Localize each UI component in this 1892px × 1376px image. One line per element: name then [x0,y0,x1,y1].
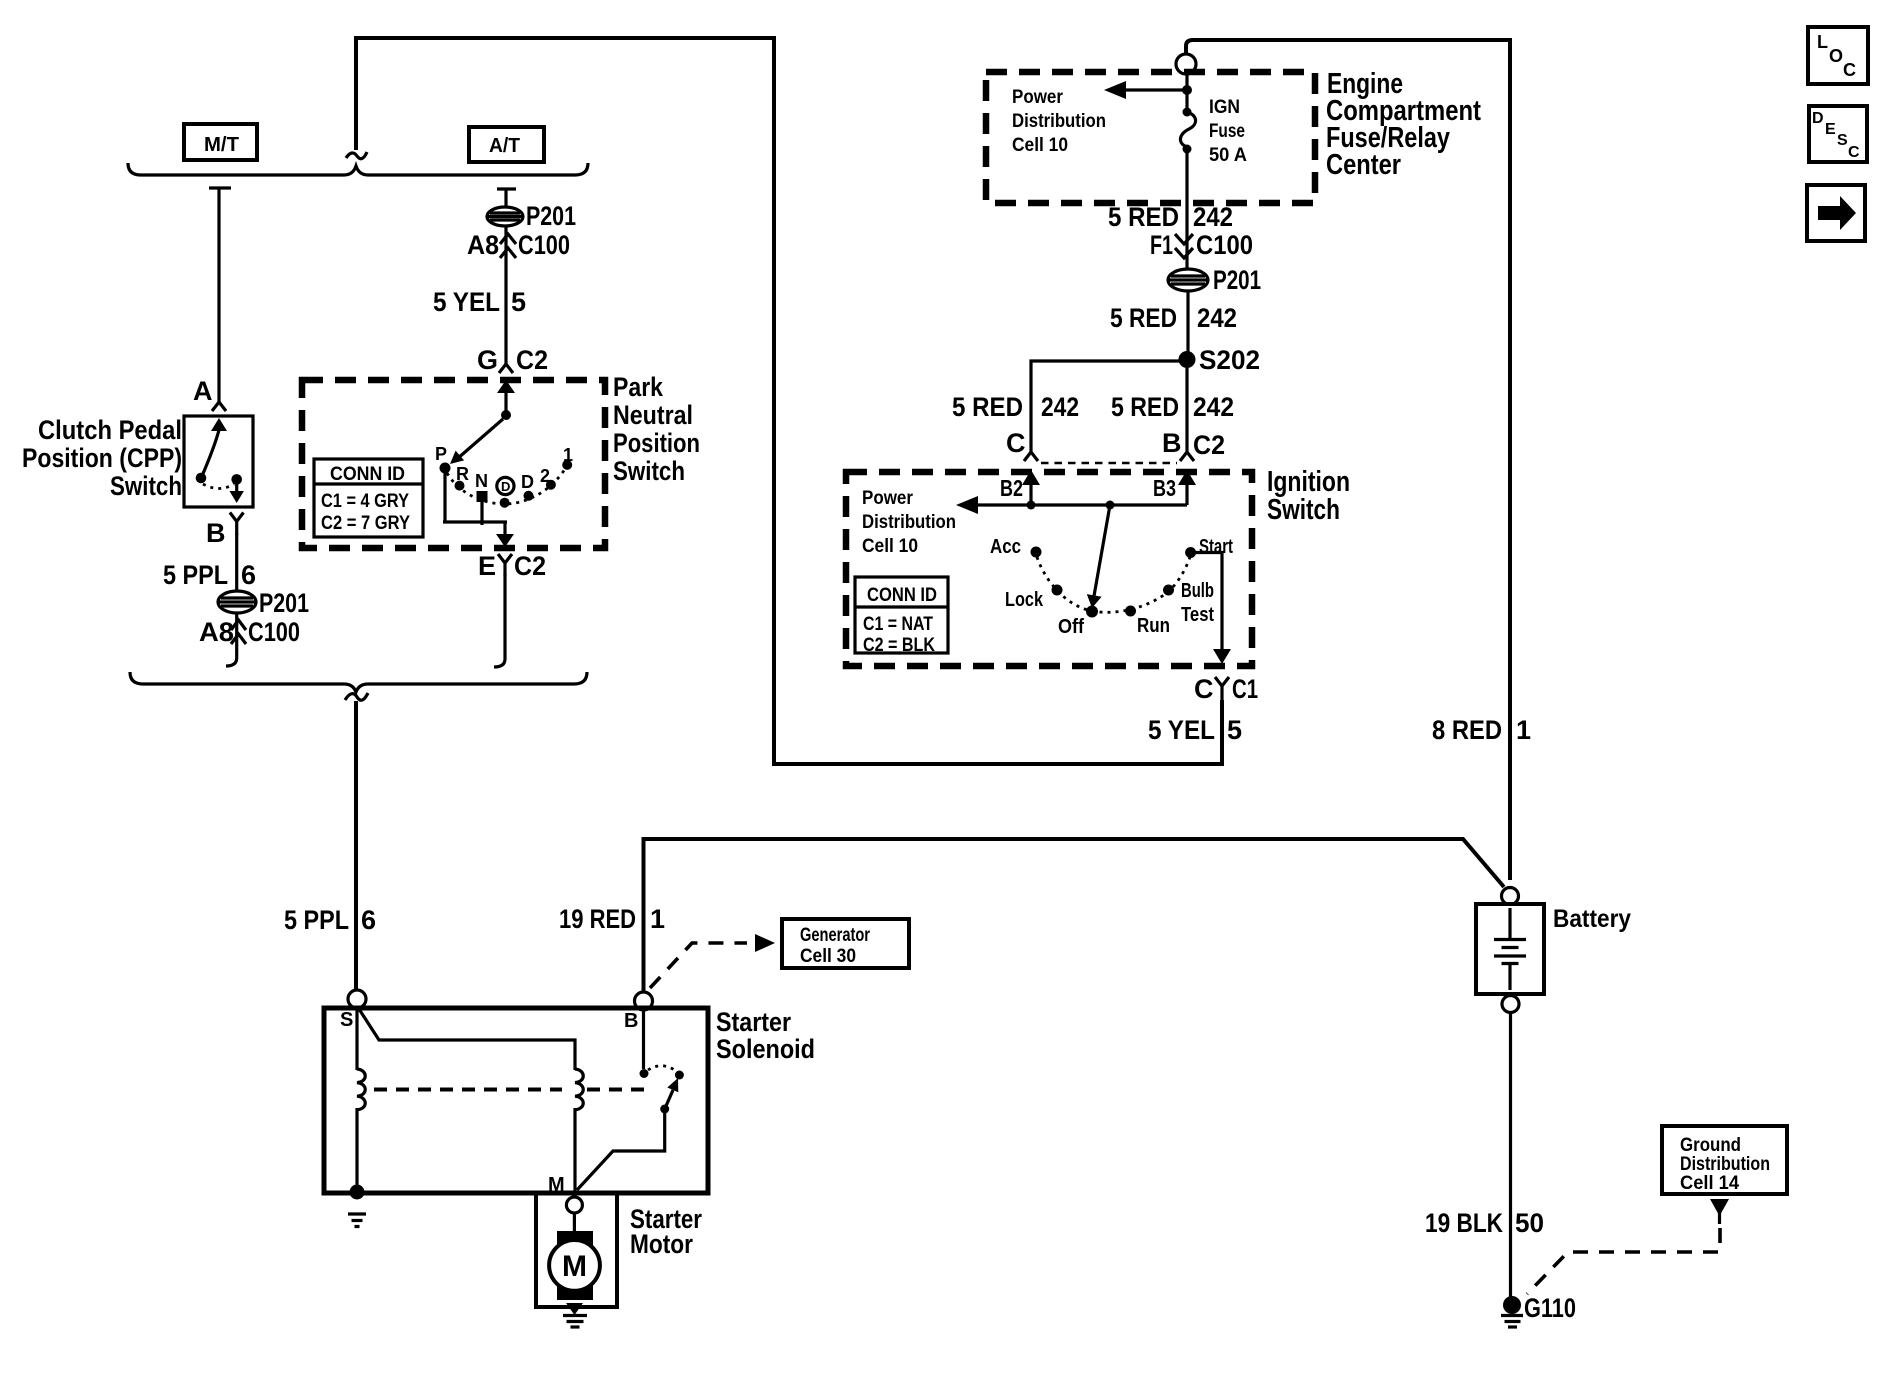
svg-text:Cell 14: Cell 14 [1680,1173,1739,1194]
svg-text:8 RED: 8 RED [1432,715,1502,745]
svg-text:Switch: Switch [613,456,685,486]
svg-text:5 YEL: 5 YEL [433,287,500,317]
svg-text:50 A: 50 A [1209,145,1247,166]
contact blade fixed [675,1071,684,1080]
ignition wiper arrow [1087,505,1110,608]
svg-text:Acc: Acc [990,536,1021,558]
wire: 19 RED solenoid B to battery [644,839,1505,992]
wire fuse to F1 connector [1185,153,1188,270]
svg-text:Switch: Switch [110,471,182,501]
svg-text:242: 242 [1193,202,1233,232]
arrow start output exits box [1213,649,1231,664]
svg-text:Motor: Motor [630,1229,693,1259]
svg-text:C1 = NAT: C1 = NAT [863,614,933,635]
box: engine compartment fuse/relay center (dashed) [986,72,1315,203]
svg-text:5 YEL: 5 YEL [1148,715,1215,745]
svg-text:G110: G110 [1524,1293,1576,1323]
PNP wiper blade to P [450,419,503,464]
contact D [521,472,534,501]
svg-text:1: 1 [1516,715,1531,745]
svg-text:S: S [1837,132,1848,149]
ground symbol (motor) [563,1303,587,1327]
wire S to hold-in coil [355,1008,358,1070]
wire B to P201 [235,533,238,592]
svg-text:Start: Start [1199,536,1233,558]
contact R [455,464,470,491]
svg-text:Position (CPP): Position (CPP) [22,443,182,473]
arrow to power distribution [1104,81,1187,99]
svg-text:S202: S202 [1199,345,1260,375]
svg-text:CONN ID: CONN ID [867,585,937,606]
svg-text:D: D [501,479,510,494]
contact Acc [990,536,1042,558]
node: battery positive [1502,888,1519,905]
wire P201 to S202 [1186,291,1189,355]
svg-text:C100: C100 [1196,230,1253,260]
wire C100 to lower brace (hook) [226,613,237,666]
svg-text:C1: C1 [1232,674,1258,704]
svg-text:242: 242 [1197,303,1237,333]
label starter motor [630,1204,702,1259]
CPP dashed arc [203,484,234,489]
svg-text:Distribution: Distribution [1012,111,1106,132]
brace top (M/T A/T options) [128,163,588,175]
svg-text:E: E [478,551,496,581]
label 8 RED 1 [1432,715,1531,745]
box: park neutral position switch (dashed) [302,380,605,548]
connector P201 grommet (A/T branch) [487,201,576,231]
contact B fixed [640,1069,649,1078]
node junction wiper on feed [1106,501,1115,510]
node: solenoid M terminal [566,1197,582,1213]
dashed connector link C2 [1041,462,1177,464]
svg-text:Neutral: Neutral [613,400,693,430]
wire coil to ground node [355,1108,358,1190]
label 5 PPL 6 (CPP branch) [163,560,256,590]
connector P201 grommet (right) [1168,265,1261,295]
svg-text:N: N [475,471,488,491]
button DESC [1809,106,1867,162]
ignition feed arrow to power distribution [956,496,1187,514]
svg-text:Power: Power [862,488,914,509]
arrow from ground distribution [1710,1199,1729,1224]
svg-text:Clutch Pedal: Clutch Pedal [38,415,182,445]
svg-text:C1 = 4 GRY: C1 = 4 GRY [321,491,409,512]
PNP P to output bus [443,473,446,522]
svg-text:Distribution: Distribution [1680,1154,1770,1175]
svg-text:B: B [1162,428,1182,458]
PNP entry arrow G [497,380,515,412]
node: solenoid B terminal [635,992,653,1010]
svg-text:50: 50 [1515,1208,1544,1238]
wire S202 branch to ignition C pin [1031,361,1187,452]
svg-text:G: G [477,345,498,375]
connector legs G pin C2 at PNP [477,345,548,375]
label engine compartment fuse/relay center [1326,68,1481,181]
label 5 RED 242 (above S202) [1110,303,1237,333]
connector F1 C100 (double chevron down) [1150,230,1253,260]
svg-text:S: S [340,1009,353,1031]
svg-text:C2 = BLK: C2 = BLK [863,635,935,656]
svg-text:Position: Position [613,428,700,458]
ground symbol (solenoid) [348,1214,366,1227]
wire: battery feed to fuse center [1186,40,1510,880]
label 5 RED 242 (right branch) [1111,392,1234,422]
brace bottom (options rejoin) [130,672,587,692]
box: battery [1476,904,1544,994]
fuse IGN 50A [1180,108,1195,154]
svg-text:C: C [1194,674,1214,704]
wire battery to G110 [1509,1012,1512,1297]
svg-text:O: O [1829,46,1843,66]
svg-text:L: L [1817,32,1828,52]
svg-text:P201: P201 [1213,265,1261,295]
ignition rotary contacts arc [1037,557,1190,612]
box: ignition switch (dashed) [846,472,1252,666]
svg-text:Fuse: Fuse [1209,121,1245,142]
svg-text:R: R [456,464,469,484]
connector E C2 below PNP [478,551,546,581]
wire interrupt squiggle bottom [345,693,368,700]
svg-text:1: 1 [563,445,573,465]
svg-text:E: E [1825,121,1836,138]
PNP output exits box [496,522,514,547]
svg-text:P201: P201 [526,201,576,231]
wire S to pull-in coil branch [359,1009,575,1070]
wire blade to M [577,1113,665,1190]
solenoid switch blade [665,1078,679,1109]
svg-text:5 RED: 5 RED [1108,202,1179,232]
svg-text:P201: P201 [259,588,309,618]
connector legs A at CPP [212,402,226,411]
label power distribution cell 10 (ignition box) [862,488,956,557]
label 5 YEL 5 (ignition output) [1148,715,1242,745]
svg-text:C: C [1843,60,1856,80]
svg-text:5 RED: 5 RED [1110,303,1177,333]
svg-text:Cell 10: Cell 10 [1012,135,1068,156]
PNP N to output bus (thick) [480,499,483,525]
label power distribution cell 10 (engine box) [1012,87,1106,156]
node splice S202 [1179,345,1261,375]
svg-text:F1: F1 [1150,230,1173,260]
connector C C1 below ignition [1194,674,1258,704]
svg-text:Battery: Battery [1553,905,1631,933]
svg-text:5: 5 [1227,715,1242,745]
svg-text:B2: B2 [1000,475,1023,501]
svg-text:5 PPL: 5 PPL [284,905,349,935]
label 5 RED 242 (left branch) [952,392,1079,422]
label 19 BLK 50 [1425,1208,1544,1238]
svg-text:Distribution: Distribution [862,512,956,533]
node: solenoid S terminal [348,990,366,1008]
svg-text:Switch: Switch [1267,494,1340,526]
dashed reference to generator [650,934,775,988]
CPP blade arrow [202,418,227,476]
conn id box (PNP) [314,459,423,537]
svg-text:Park: Park [613,372,664,402]
connector P201 grommet (CPP branch) [218,588,309,618]
connector A8 C100 (CPP branch, double chevron up) [199,617,300,647]
wire B to contact [642,1010,645,1069]
blade pivot [660,1105,669,1114]
ground symbol (G110) [1501,1316,1523,1328]
svg-text:A: A [193,376,213,406]
wire S202 down to ignition B pin [1185,368,1188,452]
svg-text:6: 6 [361,905,376,935]
pin B3 arrow [1153,470,1196,505]
contact Start [1185,536,1233,558]
svg-text:19 RED: 19 RED [559,904,636,934]
label ignition switch [1267,466,1350,526]
node: ground G110 [1503,1293,1576,1323]
pin B2 arrow [1000,470,1040,505]
mechanical link dashes [374,1088,562,1092]
contact Off [1058,606,1098,639]
svg-text:C2: C2 [514,551,546,581]
wire: start-signal loop (C1 to M/T-A/T brace) [356,38,1222,764]
PNP wiper pivot node [501,410,511,420]
box: ground distribution cell 14 [1662,1126,1787,1194]
wire A/T branch to PNP switch [504,226,507,364]
connector B below CPP [206,513,244,549]
node: fuse center input circle [1176,54,1196,74]
svg-text:242: 242 [1193,392,1234,422]
svg-text:D: D [1812,110,1824,127]
svg-text:M/T: M/T [204,134,239,156]
connector legs C pin at ignition [1006,428,1038,461]
svg-text:B: B [624,1010,638,1032]
svg-text:1: 1 [650,904,665,934]
node junction B2 on feed [1027,501,1036,510]
svg-text:C: C [1848,144,1860,161]
svg-text:P: P [435,444,447,464]
contact 1 [562,445,573,470]
svg-text:C2: C2 [516,345,548,375]
button LOC [1808,27,1868,84]
svg-text:Run: Run [1137,615,1170,637]
svg-text:19 BLK: 19 BLK [1425,1208,1503,1238]
svg-text:C100: C100 [248,617,300,647]
svg-text:A8: A8 [199,617,234,647]
CPP pivot contact [196,473,207,484]
svg-text:Ground: Ground [1680,1135,1741,1156]
svg-text:Starter: Starter [716,1007,791,1037]
connector legs B pin C2 at ignition [1162,428,1225,461]
box: starter solenoid [324,1008,708,1193]
svg-text:Generator: Generator [800,925,870,946]
svg-text:5 PPL: 5 PPL [163,560,228,590]
contact N [475,471,488,502]
CPP right contact [230,474,244,503]
wire E to lower brace (hook) [494,574,505,667]
svg-text:5 RED: 5 RED [1111,392,1179,422]
wire stub tick M/T branch [209,188,231,402]
coil right (pull-in winding) [575,1069,583,1110]
svg-text:2: 2 [540,466,550,486]
wire stub tick A/T branch [497,189,516,207]
battery cell symbol [1494,908,1526,990]
contact P [435,444,451,474]
svg-text:C2: C2 [1193,430,1225,460]
label 5 PPL 6 (to S) [284,905,376,935]
coil left (hold-in winding) [357,1069,365,1110]
contact Bulb Test [1163,580,1214,626]
PNP contacts arc [447,469,565,504]
svg-text:D: D [521,472,534,492]
label clutch pedal position (CPP) switch [22,415,182,501]
svg-text:Solenoid: Solenoid [716,1034,815,1064]
svg-text:5 RED: 5 RED [952,392,1023,422]
svg-text:B3: B3 [1153,475,1176,501]
svg-text:242: 242 [1041,392,1079,422]
svg-text:Off: Off [1058,616,1084,638]
svg-text:C: C [1006,428,1026,458]
svg-text:Lock: Lock [1005,589,1044,611]
svg-text:Test: Test [1181,604,1214,626]
svg-text:B: B [206,518,226,548]
conn id box (ignition) [855,577,948,656]
box A/T [469,127,544,162]
svg-text:A8: A8 [467,230,499,260]
svg-text:A/T: A/T [489,135,520,157]
dashed reference to G110 [1527,1228,1720,1294]
node junction on fuse feed [1182,85,1192,95]
svg-text:C2 = 7 GRY: C2 = 7 GRY [321,513,410,534]
connector A8 C100 (A/T branch, double chevron up) [467,230,570,260]
svg-text:Bulb: Bulb [1181,580,1214,602]
dotted contact arc [648,1066,676,1071]
box: starter motor [536,1193,617,1307]
label 5 RED 242 (above F1) [1108,202,1233,232]
node solenoid ground [350,1185,365,1200]
wire M to motor [573,1213,576,1235]
wire brace to solenoid S [354,701,358,990]
svg-text:Cell 10: Cell 10 [862,536,918,557]
wire interrupt squiggle top [346,152,367,159]
label park neutral position switch [613,372,700,486]
contact 2 [540,466,556,490]
svg-text:C100: C100 [518,230,570,260]
svg-text:6: 6 [241,560,256,590]
motor armature [549,1231,600,1300]
label starter solenoid [716,1007,815,1064]
label 19 RED 1 [559,904,665,934]
label 5 YEL 5 (A/T branch) [433,287,526,317]
svg-text:Cell 30: Cell 30 [800,946,856,967]
box: clutch pedal position switch [184,416,253,507]
contact Run [1125,606,1170,638]
wire start output [1191,553,1222,651]
node: battery negative [1502,996,1519,1013]
svg-text:Center: Center [1326,149,1401,181]
box: generator cell 30 [782,919,909,968]
svg-text:Power: Power [1012,87,1064,108]
box M/T [184,124,257,160]
contact OD ring [497,477,514,507]
wire coil to M terminal [573,1108,576,1193]
svg-text:M: M [562,1250,587,1283]
contact Lock [1005,585,1063,612]
wire to fuse [1185,74,1188,109]
button next-arrow [1807,185,1865,241]
svg-text:5: 5 [511,287,526,317]
svg-text:IGN: IGN [1209,97,1240,118]
label IGN fuse 50 A [1209,97,1247,166]
svg-text:CONN ID: CONN ID [330,464,405,485]
